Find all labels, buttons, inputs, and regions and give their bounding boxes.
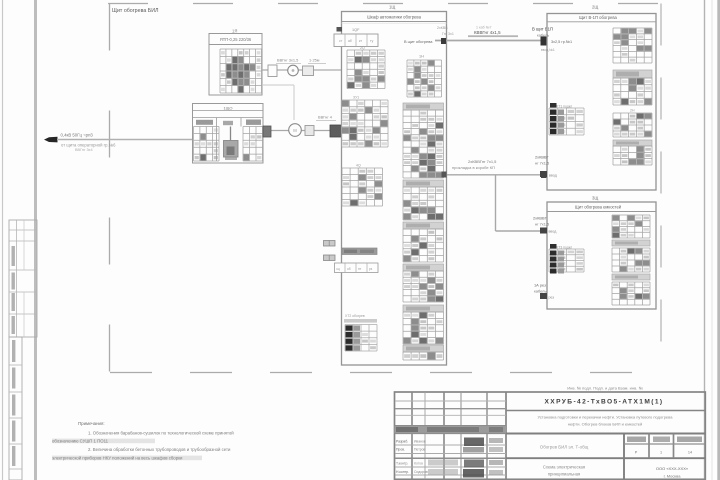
svg-text:1ЩО: 1ЩО xyxy=(223,106,232,111)
svg-text:ВВГнг 4: ВВГнг 4 xyxy=(318,114,333,119)
svg-text:Р: Р xyxy=(635,451,638,455)
svg-text:ст: ст xyxy=(339,39,343,43)
svg-text:ввод №1: ввод №1 xyxy=(541,48,555,52)
svg-text:0,4кВ 50Гц ~рп3: 0,4кВ 50Гц ~рп3 xyxy=(61,133,94,138)
svg-text:1. Обозначения барабанов-сушил: 1. Обозначения барабанов-сушилок по техн… xyxy=(88,430,234,435)
svg-text:нг 7х1,5: нг 7х1,5 xyxy=(535,221,549,226)
svg-text:КВВГнг 4х1,5: КВВГнг 4х1,5 xyxy=(474,30,501,35)
svg-text:1 каб №7: 1 каб №7 xyxy=(476,26,492,30)
svg-text:кт: кт xyxy=(359,39,363,43)
svg-text:Обогрев БИЛ эл. Т-общ: Обогрев БИЛ эл. Т-общ xyxy=(540,445,589,450)
svg-text:Шкаф автоматики обогрева: Шкаф автоматики обогрева xyxy=(367,14,421,19)
svg-text:кц: кц xyxy=(337,267,340,271)
svg-text:об: об xyxy=(347,267,351,271)
svg-text:Разраб.: Разраб. xyxy=(396,439,408,443)
svg-text:2. Величина обработки бетонных: 2. Величина обработки бетонных трубопров… xyxy=(88,447,231,452)
svg-text:ЗУ1: ЗУ1 xyxy=(353,96,359,100)
svg-text:4Q: 4Q xyxy=(356,163,361,167)
svg-text:2Q: 2Q xyxy=(360,46,365,50)
svg-text:ЯТП-0,25 220/36: ЯТП-0,25 220/36 xyxy=(220,37,252,42)
svg-text:принципиальная: принципиальная xyxy=(548,472,580,477)
svg-text:Примечания:: Примечания: xyxy=(78,421,105,426)
svg-text:1QF: 1QF xyxy=(352,28,360,32)
svg-text:Пров.: Пров. xyxy=(396,448,405,452)
svg-text:1Я: 1Я xyxy=(232,29,237,34)
svg-text:1Н: 1Н xyxy=(419,54,424,58)
svg-text:2хКВВ: 2хКВВ xyxy=(437,26,448,30)
svg-text:1·25м: 1·25м xyxy=(309,57,320,62)
svg-text:1: 1 xyxy=(660,451,662,455)
svg-text:В щит обогрева: В щит обогрева xyxy=(404,39,433,44)
svg-text:г. Москва: г. Москва xyxy=(664,473,682,478)
svg-text:аб: аб xyxy=(348,39,352,43)
svg-text:ООО «ХХХ-ХХХ»: ООО «ХХХ-ХХХ» xyxy=(656,466,689,471)
svg-text:ввод: ввод xyxy=(549,174,558,178)
svg-text:Иванов: Иванов xyxy=(414,439,426,443)
svg-text:Щит обогрева емкостей: Щит обогрева емкостей xyxy=(575,204,622,209)
svg-text:Гнг 3х1: Гнг 3х1 xyxy=(442,32,454,36)
svg-text:Сидоров: Сидоров xyxy=(414,470,428,474)
svg-text:ввод: ввод xyxy=(549,230,558,234)
svg-text:ту: ту xyxy=(370,39,374,43)
svg-text:рез: рез xyxy=(549,296,555,300)
svg-text:Щит обогрева БИЛ: Щит обогрева БИЛ xyxy=(112,8,159,14)
svg-text:Инв. № подл. Подп. и дата: Инв. № подл. Подп. и дата Взам. инв. № xyxy=(567,386,642,391)
svg-text:М: М xyxy=(293,128,297,133)
svg-text:ВВГнг 3х1,5: ВВГнг 3х1,5 xyxy=(277,57,298,62)
svg-text:Т.контр.: Т.контр. xyxy=(396,462,408,466)
svg-text:Н.контр.: Н.контр. xyxy=(396,470,409,474)
svg-text:от щита операторной гр.№6: от щита операторной гр.№6 xyxy=(61,142,116,147)
svg-text:ВВГнг 3х4: ВВГнг 3х4 xyxy=(75,148,93,152)
svg-text:2Щ: 2Щ xyxy=(592,5,598,10)
svg-text:Петров: Петров xyxy=(414,448,426,452)
svg-text:Котов: Котов xyxy=(414,462,423,466)
svg-text:Схема электрическая: Схема электрическая xyxy=(543,464,585,469)
svg-text:рз: рз xyxy=(369,267,373,271)
svg-text:прокладка в коробе КП: прокладка в коробе КП xyxy=(452,165,495,170)
svg-text:ХТ2 обогрев: ХТ2 обогрев xyxy=(345,314,365,318)
svg-text:3х2,5 гр.№1: 3х2,5 гр.№1 xyxy=(551,40,572,44)
svg-text:ХХРУБ-42-ТхВО5-АТХ1М(1): ХХРУБ-42-ТхВО5-АТХ1М(1) xyxy=(545,399,664,406)
svg-text:В щит В1П: В щит В1П xyxy=(532,27,553,32)
svg-text:нг 7х1,5: нг 7х1,5 xyxy=(535,160,549,165)
svg-text:кабель: кабель xyxy=(534,288,546,293)
svg-text:3Щ: 3Щ xyxy=(592,196,598,201)
svg-text:2хКВВГ: 2хКВВГ xyxy=(535,155,550,160)
svg-text:2хКВВГнг 7х1,5: 2хКВВГнг 7х1,5 xyxy=(468,159,497,164)
svg-text:1Щ: 1Щ xyxy=(389,5,395,10)
svg-text:Установка подготовки и перекач: Установка подготовки и перекачки нефти. … xyxy=(538,415,674,420)
svg-text:1А рез: 1А рез xyxy=(534,283,546,288)
svg-text:14: 14 xyxy=(688,451,692,455)
svg-text:нефти. Обогрев блоков БИЛ и ем: нефти. Обогрев блоков БИЛ и емкостей xyxy=(568,422,643,427)
svg-text:2хКВВГ: 2хКВВГ xyxy=(533,216,548,221)
svg-text:2Н: 2Н xyxy=(630,108,635,112)
svg-text:Щит В-1П обогрева: Щит В-1П обогрева xyxy=(579,15,617,20)
svg-text:пт: пт xyxy=(358,267,362,271)
